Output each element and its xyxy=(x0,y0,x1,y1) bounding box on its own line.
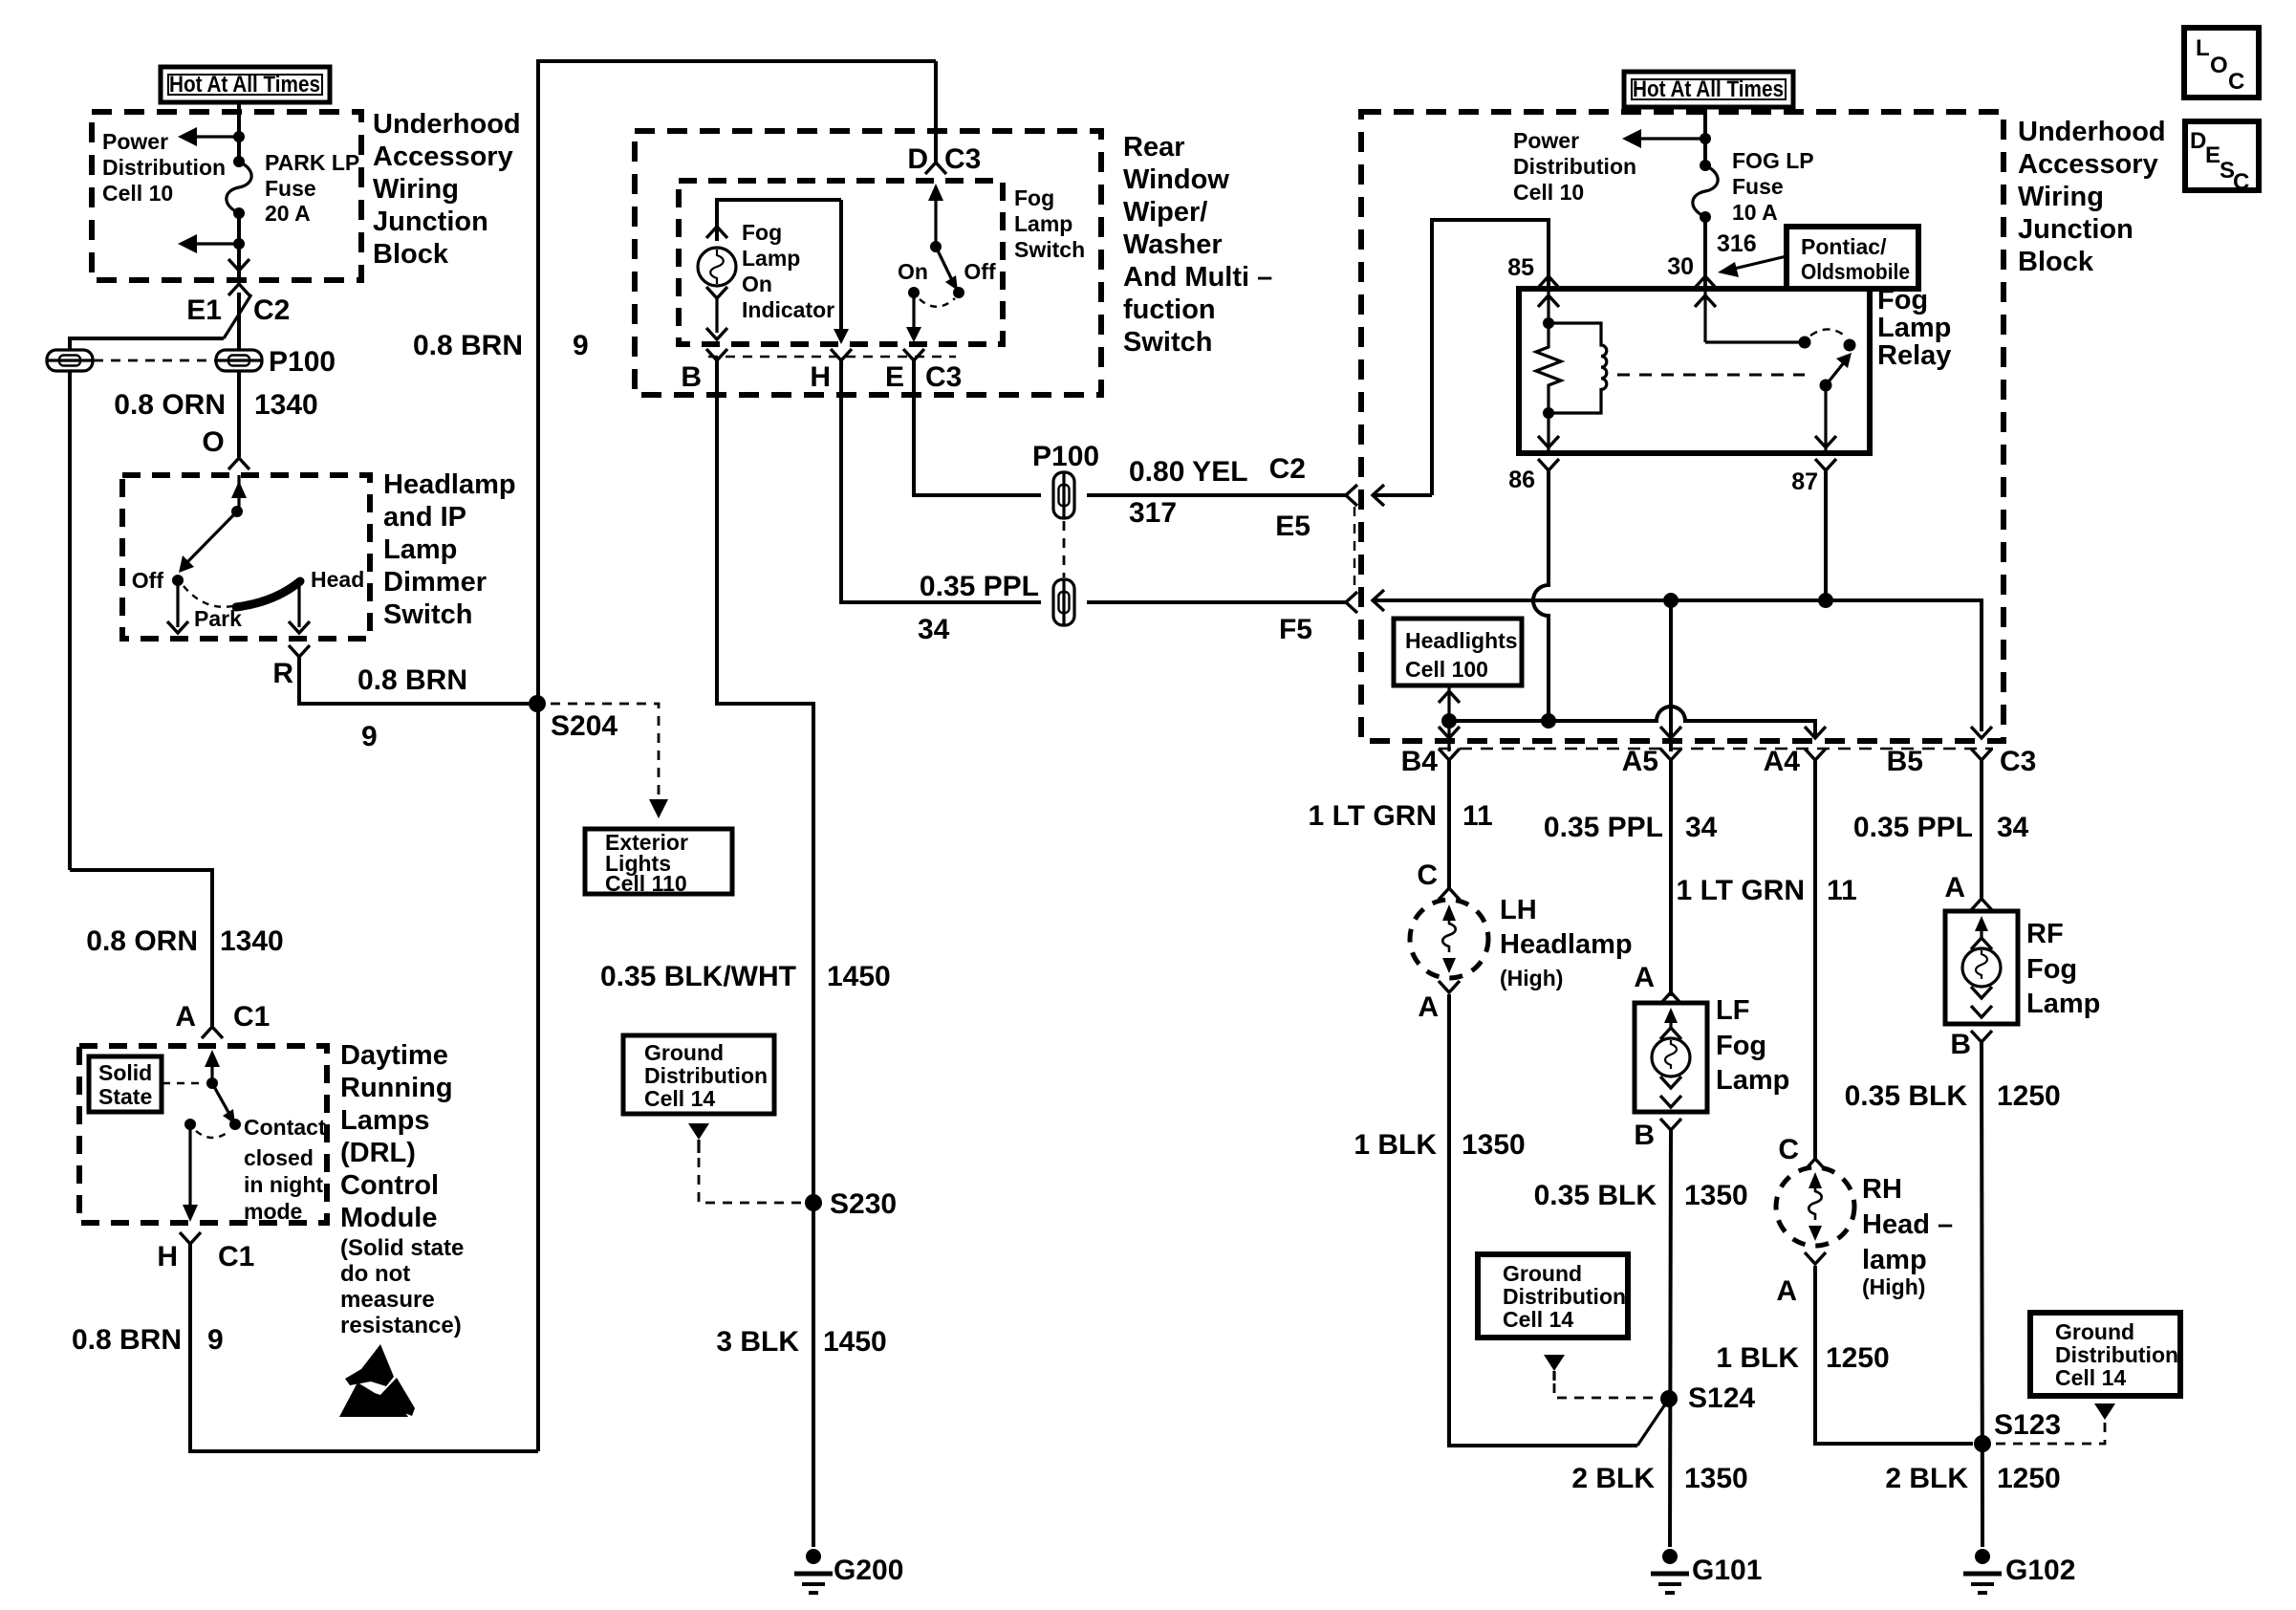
arrow chevron A4 exit xyxy=(1805,727,1826,738)
fuse FOG LP 10A xyxy=(1693,160,1718,223)
svg-text:P100: P100 xyxy=(269,346,336,378)
svg-text:Cell 14: Cell 14 xyxy=(1503,1307,1573,1332)
diagonal into splice S124 xyxy=(1637,1399,1669,1446)
svg-text:B4: B4 xyxy=(1401,746,1439,777)
svg-text:Cell 14: Cell 14 xyxy=(644,1086,715,1111)
svg-text:resistance): resistance) xyxy=(340,1313,462,1338)
in-line connector grommet (left) xyxy=(47,350,93,371)
svg-text:Cell 10: Cell 10 xyxy=(102,181,173,206)
wire H/C1 down and across to junction with brown feed xyxy=(190,1244,538,1451)
svg-text:E: E xyxy=(2205,142,2220,168)
wire B down to ground run xyxy=(717,360,813,1547)
svg-text:C3: C3 xyxy=(2000,746,2036,777)
lamp LH Headlamp (High) dashed circle xyxy=(1410,900,1488,978)
svg-text:Wiring: Wiring xyxy=(373,174,459,205)
label LF Fog Lamp xyxy=(1716,995,1789,1096)
svg-text:Rear: Rear xyxy=(1123,132,1185,163)
wire YEL to C2 xyxy=(1087,493,1346,497)
dashed actuation link xyxy=(1617,374,1805,377)
fog switch On contact xyxy=(908,287,920,298)
svg-text:State: State xyxy=(98,1084,152,1109)
label Fog Lamp Switch xyxy=(1014,185,1085,262)
svg-text:Power: Power xyxy=(102,129,168,154)
reference box Headlights Cell 100 xyxy=(1394,619,1522,685)
svg-text:Lamp: Lamp xyxy=(2026,989,2100,1019)
thin dashed connector plane C2/F5 xyxy=(1354,507,1355,591)
svg-text:Fog: Fog xyxy=(1716,1031,1766,1061)
svg-text:A5: A5 xyxy=(1622,746,1658,777)
svg-text:Distribution: Distribution xyxy=(102,155,226,180)
svg-text:C: C xyxy=(1417,859,1438,891)
svg-text:Ground: Ground xyxy=(644,1040,724,1065)
svg-text:R: R xyxy=(272,658,293,689)
svg-text:1340: 1340 xyxy=(254,389,318,421)
thick blade arc Park to Head xyxy=(236,581,300,607)
svg-text:Fog: Fog xyxy=(1877,285,1928,315)
wire A5 to LF fog lamp xyxy=(1669,760,1673,996)
svg-text:Accessory: Accessory xyxy=(373,141,513,172)
svg-text:On: On xyxy=(742,272,772,296)
svg-text:Headlamp: Headlamp xyxy=(383,469,516,500)
arrow chevron A5 exit xyxy=(1660,727,1681,738)
svg-text:Fuse: Fuse xyxy=(265,176,316,201)
svg-text:Lamp: Lamp xyxy=(383,534,457,565)
ground reference arrow (right) xyxy=(2094,1403,2115,1420)
svg-text:A: A xyxy=(1634,962,1655,993)
wire RF fog lamp to G102 xyxy=(1982,1042,1982,1547)
label Power Distribution Cell 10 xyxy=(102,129,226,206)
label box "Hot At All Times" (left) xyxy=(161,67,330,102)
relay coil xyxy=(1543,323,1607,419)
wire: feed from Hot At All Times into fuse xyxy=(237,102,241,162)
lamp RH Headlamp (High) dashed circle xyxy=(1776,1167,1854,1246)
svg-text:0.35 BLK/WHT: 0.35 BLK/WHT xyxy=(600,961,796,992)
reference box Pontiac/Oldsmobile xyxy=(1787,227,1918,289)
dashed box: Headlamp and IP Lamp Dimmer Switch xyxy=(122,475,370,639)
svg-text:G200: G200 xyxy=(834,1555,903,1586)
svg-text:0.35 BLK: 0.35 BLK xyxy=(1845,1080,1968,1112)
svg-text:B5: B5 xyxy=(1887,746,1923,777)
svg-text:(Solid state: (Solid state xyxy=(340,1235,464,1261)
label Power Distribution Cell 10 (right) xyxy=(1513,128,1636,205)
svg-text:Ground: Ground xyxy=(1503,1261,1582,1286)
svg-text:Power: Power xyxy=(1513,128,1579,153)
svg-text:fuction: fuction xyxy=(1123,294,1216,325)
connector female H/C1 xyxy=(180,1232,201,1244)
wire arrow to other circuits (lower) xyxy=(178,234,239,253)
svg-text:1 BLK: 1 BLK xyxy=(1716,1342,1799,1374)
svg-text:Hot At All Times: Hot At All Times xyxy=(169,72,320,98)
svg-text:Underhood: Underhood xyxy=(373,109,521,140)
svg-text:9: 9 xyxy=(207,1324,224,1356)
svg-text:Running: Running xyxy=(340,1073,453,1103)
switch blade arrow toward Off xyxy=(179,511,237,573)
svg-text:closed: closed xyxy=(244,1145,314,1170)
splice S124 xyxy=(1660,1390,1678,1407)
DRL input arrow xyxy=(205,1050,220,1089)
svg-text:B: B xyxy=(681,361,702,393)
svg-text:H: H xyxy=(810,361,831,393)
wire through P100 left grommet down xyxy=(68,371,72,870)
connector female A (RH) xyxy=(1805,1252,1826,1264)
ground G102 xyxy=(1963,1549,2002,1593)
svg-text:Module: Module xyxy=(340,1203,438,1233)
svg-text:lamp: lamp xyxy=(1862,1245,1927,1275)
svg-text:Control: Control xyxy=(340,1170,439,1201)
svg-text:E1: E1 xyxy=(186,294,222,326)
wire: feed from Hot At All Times (right) xyxy=(1703,107,1707,165)
svg-text:Lamps: Lamps xyxy=(340,1105,429,1136)
svg-text:Lamp: Lamp xyxy=(1877,313,1951,343)
svg-text:C2: C2 xyxy=(253,294,290,326)
svg-text:1340: 1340 xyxy=(220,925,284,957)
connector female B (RF) xyxy=(1971,1031,1992,1042)
svg-text:1250: 1250 xyxy=(1997,1463,2061,1494)
dashed travel arc Off to Park xyxy=(184,586,232,607)
dashed box: Rear Window Wiper/Washer And Multifunction Switch xyxy=(635,131,1101,395)
svg-text:Ground: Ground xyxy=(2055,1319,2134,1344)
junction dot 87/PPL xyxy=(1818,593,1833,608)
svg-text:3 BLK: 3 BLK xyxy=(716,1326,799,1358)
fog switch entry arrow xyxy=(928,184,943,247)
wire B5 to RF fog lamp xyxy=(1980,760,1983,899)
thin dashed connector row C3 xyxy=(708,356,956,358)
svg-text:Pontiac/: Pontiac/ xyxy=(1801,234,1887,259)
svg-text:2 BLK: 2 BLK xyxy=(1571,1463,1655,1494)
arrow chevron B5 exit xyxy=(1971,727,1992,738)
svg-text:E: E xyxy=(885,361,904,393)
connector female B (LF) xyxy=(1660,1119,1681,1130)
junction dot A5/PPL xyxy=(1663,593,1679,608)
svg-text:Cell 10: Cell 10 xyxy=(1513,180,1584,205)
svg-text:Head: Head xyxy=(311,567,364,592)
svg-text:in night: in night xyxy=(244,1172,323,1197)
dashed box: Underhood Accessory Wiring Junction Block (right) xyxy=(1361,112,2004,741)
svg-text:S124: S124 xyxy=(1688,1382,1755,1414)
connector female E xyxy=(903,349,924,360)
wire DRL output down xyxy=(183,1124,198,1222)
svg-text:1 BLK: 1 BLK xyxy=(1354,1129,1437,1161)
connector female 86 xyxy=(1538,459,1559,470)
svg-text:34: 34 xyxy=(1997,812,2029,843)
label box "Hot At All Times" (right) xyxy=(1624,72,1793,107)
dashed reference to S230 xyxy=(699,1158,803,1203)
dashed box: DRL Control Module xyxy=(79,1046,327,1223)
svg-text:S204: S204 xyxy=(551,710,617,742)
connector female A4 xyxy=(1805,749,1826,760)
svg-text:C: C xyxy=(1778,1134,1799,1165)
svg-text:S230: S230 xyxy=(830,1188,897,1220)
label RH Head-lamp (High) xyxy=(1862,1174,1953,1299)
relay coil output arrow (86) xyxy=(1538,413,1559,453)
svg-text:Distribution: Distribution xyxy=(1513,154,1636,179)
arrow chevron down at block exit xyxy=(228,259,249,271)
in-line connector P100 (YEL) xyxy=(1053,472,1074,518)
wire LH headlamp to S124 xyxy=(1449,994,1637,1446)
dashed connector plane P100 xyxy=(94,359,215,362)
relay fixed contact xyxy=(1844,339,1856,352)
connector slash E1/C2 xyxy=(224,294,251,338)
junction dot xyxy=(233,238,245,250)
svg-text:Block: Block xyxy=(373,239,449,270)
arrow chevron at box edge (Park output) xyxy=(167,621,188,633)
svg-text:86: 86 xyxy=(1508,467,1535,493)
label Fog Lamp Relay xyxy=(1877,285,1951,371)
svg-text:Washer: Washer xyxy=(1123,229,1223,260)
svg-text:34: 34 xyxy=(918,614,950,645)
wire RH headlamp to S123 xyxy=(1815,1266,1973,1444)
label Contact closed in night mode xyxy=(244,1115,326,1224)
svg-text:mode: mode xyxy=(244,1199,302,1224)
label Underhood Accessory Wiring Junction Block (right) xyxy=(2018,117,2166,277)
svg-text:11: 11 xyxy=(1462,800,1493,832)
switch common entry arrow xyxy=(231,475,247,517)
label Headlamp and IP Lamp Dimmer Switch xyxy=(383,469,516,630)
svg-text:0.35 PPL: 0.35 PPL xyxy=(1853,812,1973,843)
svg-text:0.8 BRN: 0.8 BRN xyxy=(72,1324,182,1356)
svg-text:Wiper/: Wiper/ xyxy=(1123,197,1207,228)
svg-text:B: B xyxy=(1634,1120,1655,1151)
relay armature xyxy=(1820,353,1852,392)
DRL switch blade xyxy=(212,1083,241,1130)
wire arrow to power distribution xyxy=(1622,129,1705,148)
svg-text:C2: C2 xyxy=(1269,453,1306,485)
svg-text:Block: Block xyxy=(2018,247,2094,277)
svg-text:Switch: Switch xyxy=(1123,327,1212,358)
splice S204 xyxy=(529,695,546,712)
wire A4 to RH headlamp xyxy=(1813,760,1817,1161)
wire 0.35 PPL across junction block xyxy=(1374,600,1982,731)
connector female C (LH) xyxy=(1439,888,1460,900)
wire A5 vertical through box edge xyxy=(1669,600,1673,751)
svg-text:S123: S123 xyxy=(1994,1409,2061,1441)
connector female H xyxy=(831,349,852,360)
wire: long vertical 0.8 BRN 9 net xyxy=(538,61,936,1451)
connector female B xyxy=(706,349,727,360)
svg-text:A: A xyxy=(175,1001,196,1033)
svg-text:D: D xyxy=(907,143,928,175)
svg-text:0.8 ORN: 0.8 ORN xyxy=(86,925,198,957)
in-line connector grommet P100 (center) xyxy=(216,350,262,371)
arrow Pontiac/Oldsmobile to wire xyxy=(1718,256,1787,277)
relay coil input arrow (85) xyxy=(1538,289,1559,329)
svg-text:0.35 PPL: 0.35 PPL xyxy=(920,571,1039,602)
svg-text:10 A: 10 A xyxy=(1732,200,1778,225)
dashed contact arc On-Off xyxy=(920,298,955,307)
svg-text:317: 317 xyxy=(1129,497,1177,529)
svg-text:C1: C1 xyxy=(218,1241,254,1273)
svg-text:1 LT GRN: 1 LT GRN xyxy=(1309,800,1437,832)
label PARK LP Fuse 20 A xyxy=(265,150,359,226)
connector E1/C2 female xyxy=(228,284,249,295)
svg-text:A: A xyxy=(1944,872,1965,903)
wire R to S204 xyxy=(299,657,529,704)
svg-text:1350: 1350 xyxy=(1462,1129,1526,1161)
svg-text:Daytime: Daytime xyxy=(340,1040,448,1071)
svg-text:Underhood: Underhood xyxy=(2018,117,2166,147)
svg-text:0.8 ORN: 0.8 ORN xyxy=(114,389,226,421)
svg-text:20 A: 20 A xyxy=(265,201,311,226)
DRL switch left contact xyxy=(184,1119,196,1130)
svg-text:G102: G102 xyxy=(2005,1555,2075,1586)
wire below fuse xyxy=(237,213,241,283)
svg-text:Junction: Junction xyxy=(2018,214,2134,245)
relay box: Fog Lamp Relay xyxy=(1519,289,1870,453)
fog switch Off contact xyxy=(953,287,964,298)
svg-text:(DRL): (DRL) xyxy=(340,1138,416,1168)
svg-text:FOG LP: FOG LP xyxy=(1732,148,1814,173)
reference box Ground Distribution Cell 14 (right) xyxy=(2030,1313,2180,1396)
svg-text:C3: C3 xyxy=(925,361,962,393)
svg-text:(High): (High) xyxy=(1500,966,1563,990)
splice S230 xyxy=(805,1194,822,1211)
svg-text:1350: 1350 xyxy=(1684,1180,1748,1211)
wire LF fog lamp to G101 xyxy=(1670,1130,1671,1547)
ground reference arrow (left) xyxy=(688,1123,709,1153)
svg-text:Fog: Fog xyxy=(1014,185,1054,210)
boxed LOC marker xyxy=(2184,28,2259,98)
svg-text:30: 30 xyxy=(1667,253,1694,280)
fog switch pivot xyxy=(930,241,942,252)
arrow chevron at box edge (R output) xyxy=(289,621,310,633)
connector female R xyxy=(289,645,310,657)
svg-text:Fog: Fog xyxy=(742,220,782,245)
svg-text:L: L xyxy=(2196,35,2210,61)
connector female A (LF) xyxy=(1660,992,1681,1004)
wire arrow to other circuits (upper) xyxy=(178,127,239,146)
reference box Ground Distribution Cell 14 (middle) xyxy=(1478,1254,1628,1338)
relay resistor xyxy=(1536,323,1561,413)
svg-text:0.8 BRN: 0.8 BRN xyxy=(357,664,467,696)
svg-text:0.8 BRN: 0.8 BRN xyxy=(413,330,523,361)
connector female D/C3 xyxy=(925,163,946,174)
lamp RF Fog Lamp xyxy=(1945,911,2018,1024)
wire On contact down xyxy=(906,293,921,342)
dashed contact throw arc xyxy=(1810,329,1847,337)
svg-text:Fuse: Fuse xyxy=(1732,174,1784,199)
svg-text:Lamp: Lamp xyxy=(1014,211,1072,236)
svg-text:G101: G101 xyxy=(1692,1555,1762,1586)
svg-text:Window: Window xyxy=(1123,164,1229,195)
svg-text:RF: RF xyxy=(2026,919,2064,949)
svg-text:measure: measure xyxy=(340,1287,435,1313)
svg-text:H: H xyxy=(157,1241,178,1273)
connector female A (LH) xyxy=(1439,981,1460,992)
svg-text:F5: F5 xyxy=(1279,614,1312,645)
svg-text:Relay: Relay xyxy=(1877,340,1951,371)
reference box Ground Distribution Cell 14 (left) xyxy=(623,1035,774,1114)
svg-text:34: 34 xyxy=(1685,812,1718,843)
lamp LF Fog Lamp xyxy=(1635,1003,1707,1112)
wire PPL to F5 xyxy=(1087,600,1346,604)
svg-text:Distribution: Distribution xyxy=(2055,1342,2178,1367)
splice S123 xyxy=(1974,1435,1991,1452)
svg-text:Head –: Head – xyxy=(1862,1209,1953,1240)
thin dashed connector row C3 (right box) xyxy=(1439,748,1993,750)
wire pin 85 feed from C2 entry xyxy=(1432,220,1549,495)
connector entry F5 xyxy=(1346,590,1384,613)
label Underhood Accessory Wiring Junction Block (left) xyxy=(373,109,521,270)
svg-text:0.80 YEL: 0.80 YEL xyxy=(1129,456,1248,488)
wire pin 87 down to PPL junction xyxy=(1824,470,1828,600)
svg-text:Junction: Junction xyxy=(373,207,488,237)
ground G200 xyxy=(794,1549,833,1593)
svg-text:LF: LF xyxy=(1716,995,1749,1026)
svg-text:Solid: Solid xyxy=(98,1060,152,1085)
svg-text:0.35 BLK: 0.35 BLK xyxy=(1534,1180,1657,1211)
wire H down to P100 PPL xyxy=(841,360,1041,602)
svg-text:do not: do not xyxy=(340,1261,410,1287)
svg-text:Dimmer: Dimmer xyxy=(383,567,487,598)
ground G101 xyxy=(1651,1549,1689,1593)
svg-text:O: O xyxy=(2210,53,2228,78)
wire C2 to dimmer switch xyxy=(237,293,241,350)
label FOG LP Fuse 10 A xyxy=(1732,148,1814,225)
dashed box: Power Distribution Cell 10 (underhood junction block, left) xyxy=(92,112,361,280)
wire: D feed down into multifunction switch xyxy=(934,61,938,163)
svg-text:Off: Off xyxy=(964,259,996,284)
svg-text:On: On xyxy=(898,259,928,284)
svg-text:9: 9 xyxy=(361,721,378,752)
svg-text:A4: A4 xyxy=(1764,746,1801,777)
in-line connector P100 (PPL) xyxy=(1053,579,1074,625)
svg-text:O: O xyxy=(202,426,224,458)
wire H branch inside switch xyxy=(834,200,849,344)
junction dot 86 net xyxy=(1541,713,1556,729)
label Rear Window Wiper/Washer And Multi-fuction Switch xyxy=(1123,132,1272,358)
svg-text:9: 9 xyxy=(573,330,589,361)
junction dot xyxy=(233,131,245,142)
svg-text:A: A xyxy=(1418,991,1439,1023)
connector entry C2 xyxy=(1346,485,1432,506)
svg-text:E5: E5 xyxy=(1275,511,1310,542)
svg-text:Fog: Fog xyxy=(2026,954,2077,985)
svg-text:85: 85 xyxy=(1507,254,1534,281)
svg-text:Distribution: Distribution xyxy=(644,1063,768,1088)
svg-text:Contact: Contact xyxy=(244,1115,326,1140)
fuse PARK LP 20A xyxy=(227,156,251,219)
svg-text:Cell 110: Cell 110 xyxy=(605,871,687,896)
ground reference arrow (middle) xyxy=(1544,1355,1565,1381)
svg-text:Accessory: Accessory xyxy=(2018,149,2158,180)
svg-text:Cell 14: Cell 14 xyxy=(2055,1365,2126,1390)
connector female B5 xyxy=(1971,749,1992,760)
svg-text:2 BLK: 2 BLK xyxy=(1885,1463,1968,1494)
svg-text:LH: LH xyxy=(1500,895,1537,925)
svg-text:11: 11 xyxy=(1827,875,1857,906)
connector female A/C1 xyxy=(202,1027,223,1038)
connector female 85 xyxy=(1538,276,1559,288)
reference box Exterior Lights Cell 110 xyxy=(585,829,732,896)
svg-text:A: A xyxy=(1776,1275,1797,1307)
dashed reference to S124 xyxy=(1554,1383,1659,1398)
connector female B4 xyxy=(1439,749,1460,760)
ESD sensitive device symbol xyxy=(339,1344,415,1417)
svg-text:Wiring: Wiring xyxy=(2018,182,2104,212)
junction dot xyxy=(1700,133,1711,144)
svg-text:Cell 100: Cell 100 xyxy=(1405,657,1488,682)
switch Off contact xyxy=(172,575,184,586)
dashed contact arc xyxy=(196,1131,229,1138)
svg-text:0.35 PPL: 0.35 PPL xyxy=(1544,812,1663,843)
svg-text:316: 316 xyxy=(1717,230,1757,257)
connector female C (RH) xyxy=(1805,1159,1826,1170)
svg-text:1450: 1450 xyxy=(823,1326,887,1358)
dashed box: fog lamp switch inner xyxy=(679,181,1003,344)
svg-text:Indicator: Indicator xyxy=(742,297,834,322)
wire Head contact down to R xyxy=(297,580,300,627)
wire: left branch corner to DRL module xyxy=(70,870,212,1027)
